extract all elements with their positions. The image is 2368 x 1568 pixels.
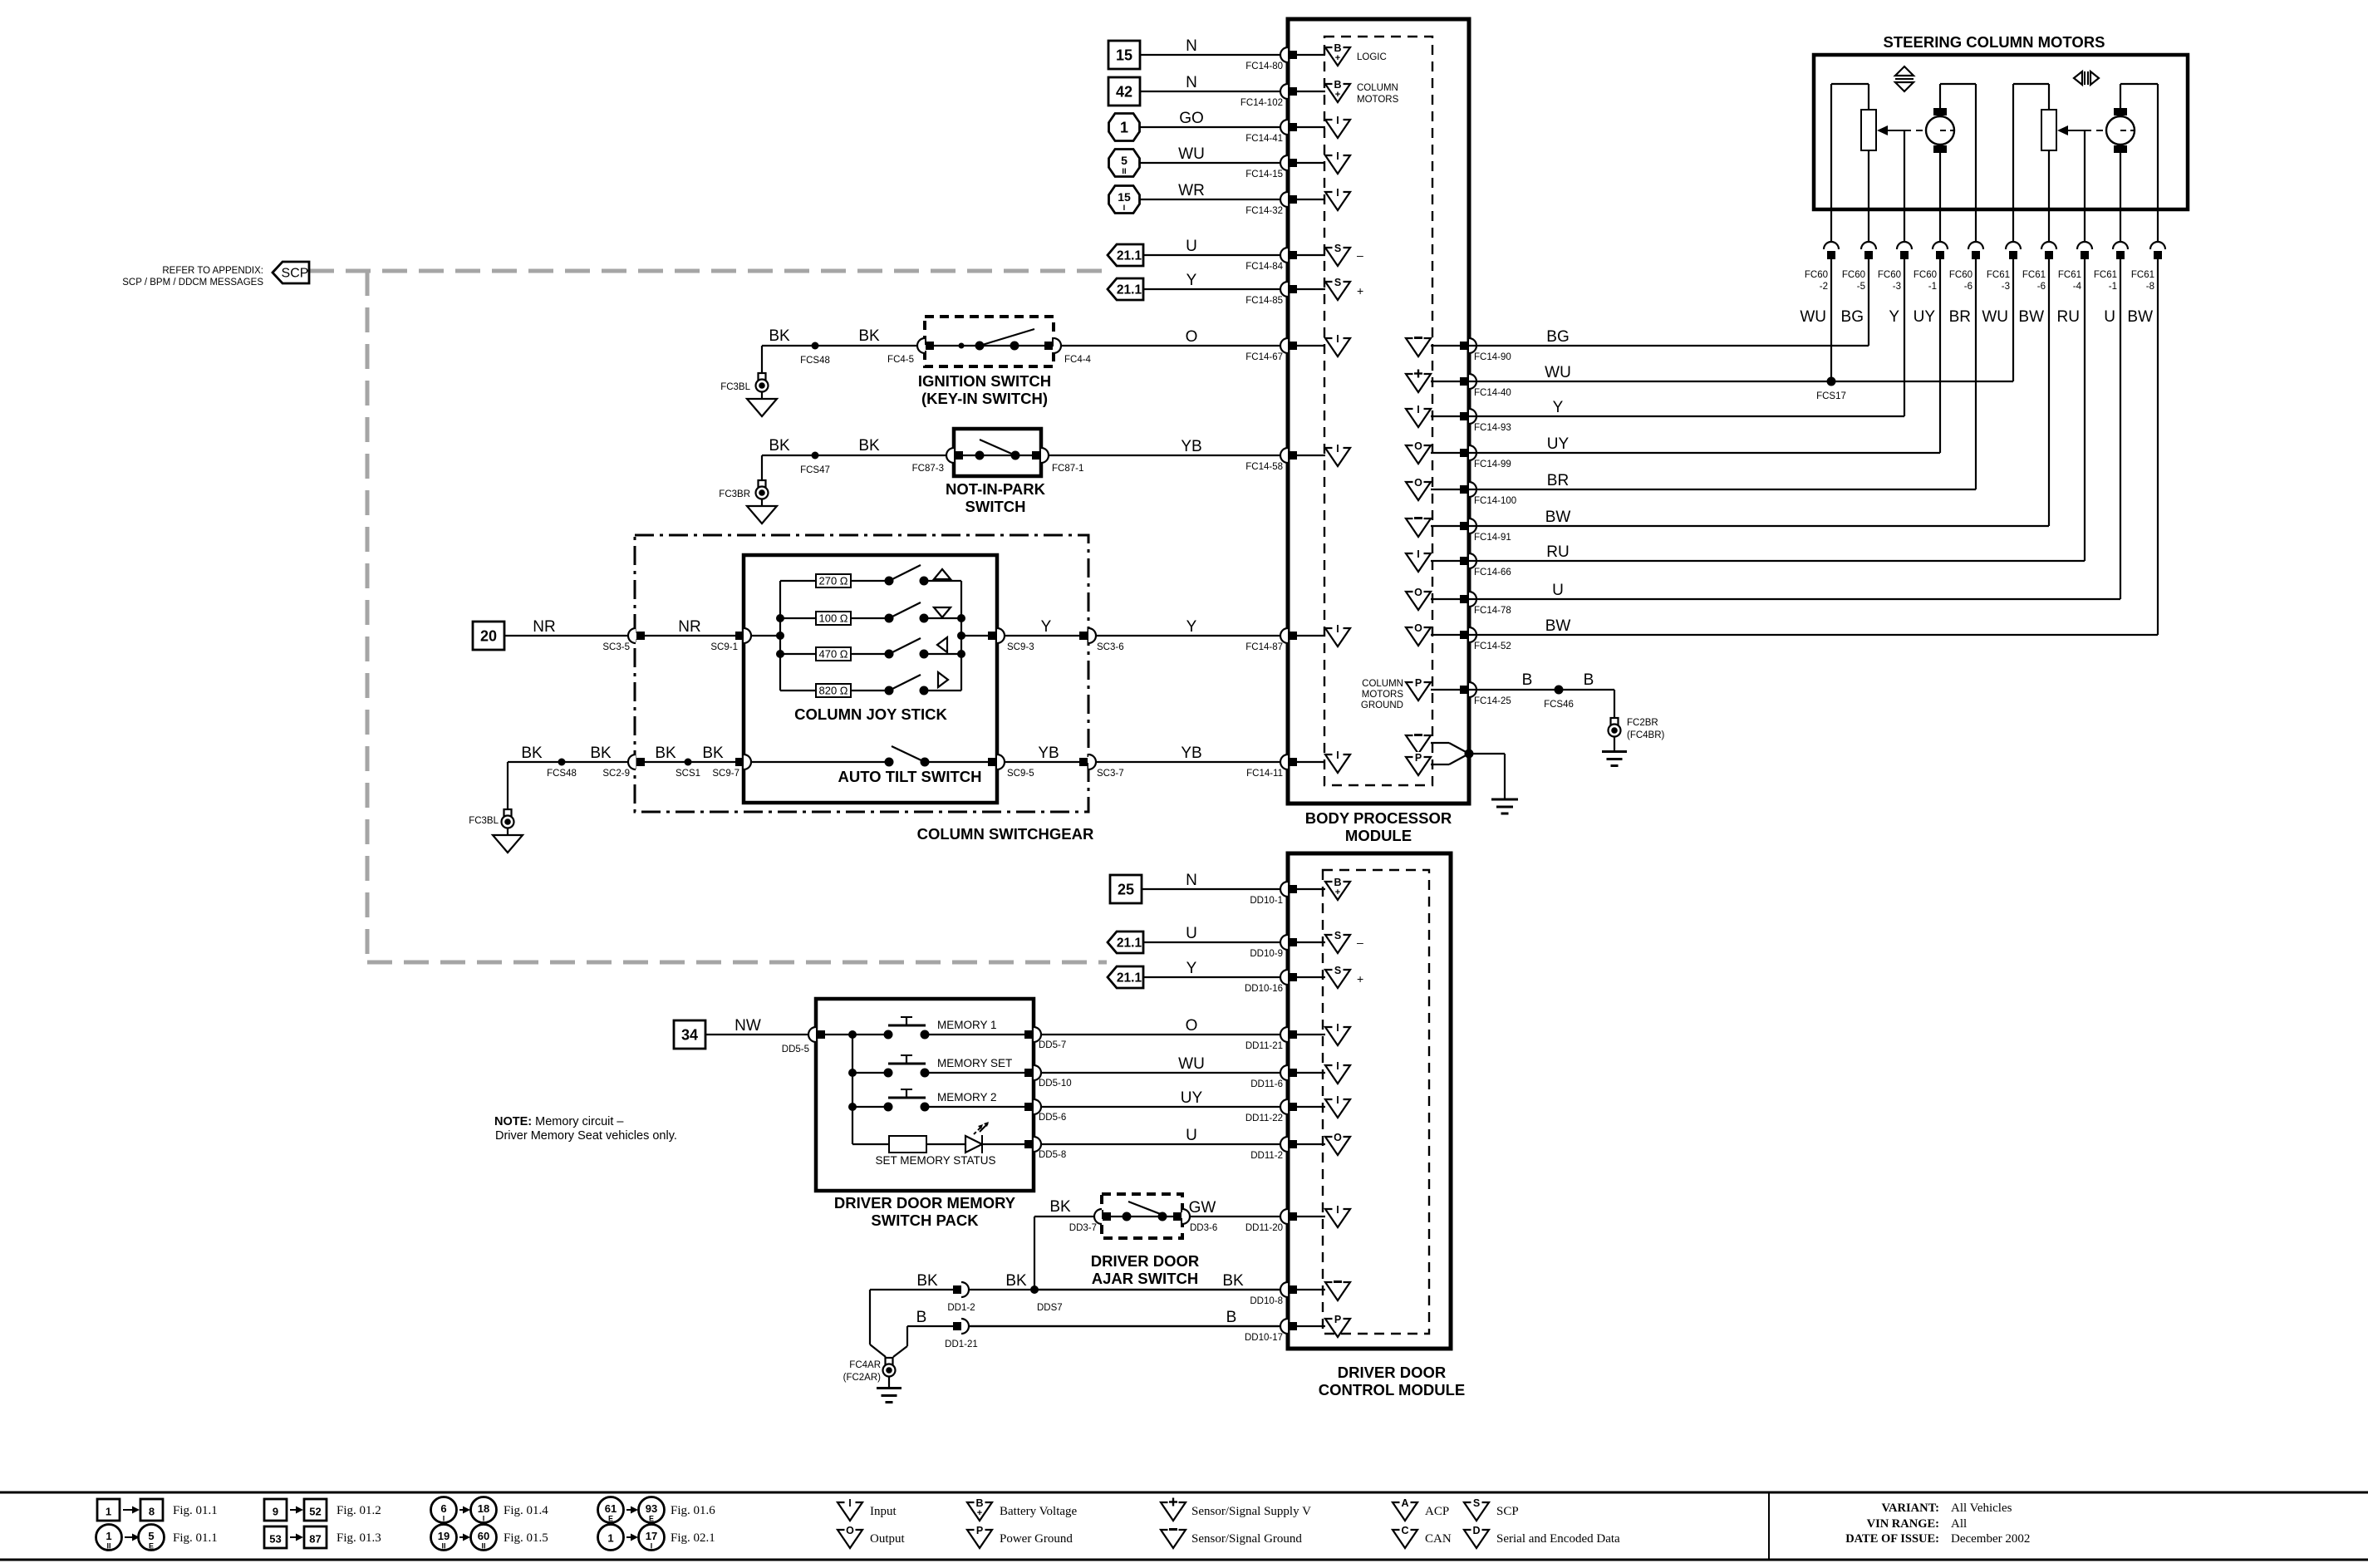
svg-text:COLUMN: COLUMN	[1362, 679, 1403, 689]
svg-text:93: 93	[646, 1502, 657, 1515]
svg-text:O: O	[1334, 1132, 1342, 1143]
svg-text:FC4-4: FC4-4	[1064, 355, 1092, 365]
svg-text:U: U	[2104, 308, 2115, 326]
svg-text:BG: BG	[1841, 308, 1864, 326]
svg-text:S: S	[1334, 965, 1341, 976]
svg-text:MODULE: MODULE	[1345, 827, 1412, 844]
svg-text:Serial and Encoded Data: Serial and Encoded Data	[1496, 1532, 1620, 1546]
svg-text:DD11-6: DD11-6	[1250, 1079, 1283, 1089]
svg-text:BK: BK	[769, 327, 790, 345]
svg-text:I: I	[483, 1515, 485, 1523]
svg-text:BW: BW	[2018, 308, 2044, 326]
svg-text:-3: -3	[2002, 282, 2010, 292]
svg-text:O: O	[1186, 328, 1198, 346]
svg-text:FC14-11: FC14-11	[1246, 769, 1283, 779]
svg-text:DRIVER DOOR: DRIVER DOOR	[1091, 1252, 1200, 1270]
svg-text:87: 87	[309, 1533, 321, 1546]
svg-text:FC14-99: FC14-99	[1474, 460, 1511, 469]
svg-text:I: I	[848, 1497, 851, 1509]
svg-text:-3: -3	[1893, 282, 1901, 292]
svg-text:MEMORY SET: MEMORY SET	[937, 1057, 1012, 1069]
svg-text:YB: YB	[1181, 745, 1201, 762]
svg-text:SCP: SCP	[1496, 1505, 1519, 1518]
svg-text:DD1-21: DD1-21	[945, 1339, 978, 1349]
svg-text:BW: BW	[2127, 308, 2153, 326]
svg-text:Sensor/Signal Ground: Sensor/Signal Ground	[1191, 1532, 1302, 1546]
svg-text:+: +	[1335, 53, 1340, 63]
svg-text:RU: RU	[1546, 543, 1569, 561]
svg-text:I: I	[1336, 750, 1339, 761]
svg-text:820 Ω: 820 Ω	[818, 685, 847, 697]
svg-text:FC60: FC60	[1949, 270, 1973, 280]
svg-text:270 Ω: 270 Ω	[818, 575, 847, 587]
svg-text:MEMORY 1: MEMORY 1	[937, 1019, 997, 1031]
svg-text:Fig. 01.5: Fig. 01.5	[504, 1531, 548, 1545]
svg-text:S: S	[1334, 277, 1341, 288]
svg-text:II: II	[481, 1542, 485, 1551]
svg-text:FCS17: FCS17	[1816, 391, 1846, 401]
svg-text:6: 6	[440, 1502, 446, 1515]
svg-text:-6: -6	[1964, 282, 1973, 292]
svg-text:BK: BK	[1222, 1272, 1244, 1290]
svg-text:+: +	[977, 1508, 982, 1518]
svg-text:FC14-85: FC14-85	[1245, 296, 1283, 306]
svg-text:P: P	[1415, 677, 1422, 689]
svg-text:O: O	[1414, 440, 1422, 452]
svg-text:WU: WU	[1178, 145, 1205, 163]
svg-text:B: B	[1334, 877, 1341, 888]
svg-text:52: 52	[309, 1506, 321, 1518]
svg-text:17: 17	[646, 1530, 657, 1542]
svg-text:GO: GO	[1179, 110, 1204, 127]
svg-text:25: 25	[1118, 882, 1134, 898]
svg-text:DD5-6: DD5-6	[1039, 1113, 1066, 1123]
svg-text:O: O	[1414, 477, 1422, 489]
svg-text:BW: BW	[1545, 509, 1571, 526]
svg-text:100 Ω: 100 Ω	[818, 612, 847, 625]
svg-text:B: B	[916, 1309, 927, 1326]
svg-text:SWITCH PACK: SWITCH PACK	[871, 1212, 979, 1229]
svg-text:1: 1	[106, 1506, 111, 1518]
svg-text:P: P	[1334, 1314, 1341, 1325]
svg-text:(KEY-IN SWITCH): (KEY-IN SWITCH)	[921, 390, 1048, 407]
svg-text:STEERING COLUMN MOTORS: STEERING COLUMN MOTORS	[1884, 33, 2105, 51]
svg-text:WU: WU	[1982, 308, 2008, 326]
svg-text:FC61: FC61	[2022, 270, 2046, 280]
svg-text:D: D	[1472, 1525, 1480, 1536]
svg-text:SWITCH: SWITCH	[965, 498, 1026, 515]
svg-text:DD5-7: DD5-7	[1039, 1040, 1066, 1050]
svg-text:FC14-41: FC14-41	[1245, 134, 1283, 144]
svg-text:U: U	[1552, 582, 1564, 599]
svg-text:FC60: FC60	[1842, 270, 1865, 280]
svg-text:VARIANT:: VARIANT:	[1881, 1502, 1939, 1515]
svg-text:I: I	[651, 1542, 653, 1551]
svg-text:COLUMN JOY STICK: COLUMN JOY STICK	[794, 705, 947, 723]
svg-text:S: S	[1334, 243, 1341, 254]
svg-text:BR: BR	[1547, 472, 1569, 489]
svg-text:-8: -8	[2146, 282, 2154, 292]
svg-text:SCP: SCP	[282, 267, 309, 281]
svg-text:BK: BK	[590, 745, 612, 762]
svg-text:470 Ω: 470 Ω	[818, 648, 847, 661]
svg-text:Sensor/Signal Supply V: Sensor/Signal Supply V	[1191, 1505, 1311, 1518]
svg-text:S: S	[1334, 930, 1341, 941]
svg-text:–: –	[1357, 936, 1363, 949]
svg-text:DDS7: DDS7	[1037, 1303, 1063, 1313]
svg-text:GROUND: GROUND	[1361, 700, 1403, 710]
svg-text:A: A	[1401, 1497, 1408, 1509]
svg-text:O: O	[846, 1525, 854, 1536]
svg-text:5: 5	[148, 1530, 154, 1542]
svg-text:I: I	[1336, 187, 1339, 199]
svg-text:FC14-78: FC14-78	[1474, 606, 1511, 616]
svg-text:FC61: FC61	[1987, 270, 2010, 280]
svg-text:I: I	[1336, 623, 1339, 635]
svg-text:YB: YB	[1038, 745, 1059, 762]
svg-text:I: I	[1417, 548, 1419, 560]
svg-text:Fig. 02.1: Fig. 02.1	[671, 1531, 715, 1545]
svg-text:Driver Memory Seat vehicles on: Driver Memory Seat vehicles only.	[495, 1129, 677, 1143]
svg-text:I: I	[1123, 204, 1126, 213]
svg-text:N: N	[1186, 872, 1197, 889]
svg-text:WR: WR	[1178, 182, 1205, 199]
svg-text:U: U	[1186, 1127, 1197, 1144]
svg-text:19: 19	[438, 1530, 450, 1542]
svg-text:+: +	[1357, 284, 1363, 297]
svg-text:FC14-84: FC14-84	[1245, 262, 1283, 272]
svg-text:NW: NW	[734, 1017, 761, 1035]
svg-text:P: P	[976, 1525, 983, 1536]
svg-text:I: I	[1417, 404, 1419, 415]
svg-text:-1: -1	[1928, 282, 1937, 292]
svg-text:–: –	[1357, 248, 1363, 262]
svg-text:FC14-67: FC14-67	[1245, 352, 1283, 362]
svg-text:18: 18	[478, 1502, 489, 1515]
svg-text:SC3-7: SC3-7	[1097, 769, 1124, 779]
svg-text:BK: BK	[916, 1272, 938, 1290]
svg-text:Battery Voltage: Battery Voltage	[1000, 1505, 1078, 1518]
svg-text:Fig. 01.2: Fig. 01.2	[337, 1504, 381, 1517]
svg-text:All Vehicles: All Vehicles	[1951, 1502, 2012, 1515]
svg-text:Fig. 01.3: Fig. 01.3	[337, 1531, 381, 1545]
svg-text:CAN: CAN	[1425, 1532, 1452, 1546]
svg-text:B: B	[1522, 671, 1533, 689]
svg-text:-5: -5	[1857, 282, 1865, 292]
svg-text:I: I	[1336, 1060, 1339, 1072]
svg-text:E: E	[608, 1515, 613, 1523]
svg-text:N: N	[1186, 74, 1197, 91]
svg-text:FC14-100: FC14-100	[1474, 496, 1516, 506]
svg-text:B: B	[1334, 79, 1341, 91]
svg-text:SC2-9: SC2-9	[602, 769, 630, 779]
svg-text:Fig. 01.1: Fig. 01.1	[173, 1504, 218, 1517]
svg-text:I: I	[1336, 1022, 1339, 1034]
svg-text:DD11-20: DD11-20	[1245, 1223, 1283, 1233]
svg-text:DD10-16: DD10-16	[1245, 984, 1283, 994]
svg-text:15: 15	[1116, 47, 1132, 64]
svg-text:+: +	[1335, 90, 1340, 100]
svg-text:U: U	[1186, 925, 1197, 942]
svg-text:21.1: 21.1	[1117, 249, 1142, 263]
svg-text:BK: BK	[858, 437, 880, 455]
svg-text:AUTO TILT SWITCH: AUTO TILT SWITCH	[838, 768, 982, 785]
svg-text:I: I	[1336, 150, 1339, 162]
svg-text:-4: -4	[2073, 282, 2082, 292]
svg-text:Fig. 01.1: Fig. 01.1	[173, 1531, 218, 1545]
svg-text:FC14-25: FC14-25	[1474, 696, 1511, 706]
svg-text:FC14-91: FC14-91	[1474, 533, 1511, 543]
svg-text:FC14-58: FC14-58	[1245, 462, 1283, 472]
svg-text:ACP: ACP	[1425, 1505, 1449, 1518]
svg-text:WU: WU	[1545, 364, 1571, 381]
svg-text:B: B	[1584, 671, 1594, 689]
svg-text:FC3BR: FC3BR	[719, 489, 750, 499]
svg-text:9: 9	[273, 1506, 278, 1518]
svg-text:DD11-22: DD11-22	[1245, 1113, 1283, 1123]
svg-text:MOTORS: MOTORS	[1357, 95, 1399, 105]
svg-text:I: I	[1336, 1204, 1339, 1216]
svg-text:SCS1: SCS1	[676, 769, 700, 779]
svg-text:FC3BL: FC3BL	[720, 382, 750, 392]
svg-text:42: 42	[1116, 84, 1132, 101]
svg-text:Power Ground: Power Ground	[1000, 1532, 1073, 1546]
svg-text:SC9-1: SC9-1	[710, 642, 738, 652]
svg-text:WU: WU	[1800, 308, 1826, 326]
svg-text:DD10-9: DD10-9	[1250, 949, 1283, 959]
svg-text:FC3BL: FC3BL	[469, 816, 499, 826]
svg-text:BR: BR	[1949, 308, 1971, 326]
svg-text:Output: Output	[870, 1532, 906, 1546]
svg-text:34: 34	[681, 1027, 698, 1044]
svg-text:All: All	[1951, 1517, 1967, 1531]
svg-text:DD5-8: DD5-8	[1039, 1150, 1066, 1160]
svg-text:B: B	[1334, 42, 1341, 54]
svg-text:Y: Y	[1041, 618, 1052, 636]
svg-text:YB: YB	[1181, 438, 1201, 455]
svg-text:FC14-102: FC14-102	[1240, 98, 1283, 108]
svg-text:FC61: FC61	[2094, 270, 2117, 280]
svg-text:U: U	[1186, 238, 1197, 255]
svg-text:MEMORY 2: MEMORY 2	[937, 1091, 997, 1103]
svg-text:Fig. 01.6: Fig. 01.6	[671, 1504, 715, 1517]
svg-text:(FC4BR): (FC4BR)	[1627, 730, 1665, 740]
svg-text:FC60: FC60	[1805, 270, 1828, 280]
svg-text:I: I	[443, 1515, 445, 1523]
svg-text:O: O	[1414, 622, 1422, 634]
svg-text:1: 1	[607, 1532, 613, 1545]
svg-text:BK: BK	[521, 745, 543, 762]
svg-text:Y: Y	[1186, 618, 1197, 636]
svg-text:DRIVER DOOR: DRIVER DOOR	[1338, 1364, 1447, 1381]
svg-text:Y: Y	[1889, 308, 1899, 326]
svg-text:AJAR SWITCH: AJAR SWITCH	[1092, 1270, 1198, 1287]
svg-text:COLUMN: COLUMN	[1357, 83, 1398, 93]
svg-text:COLUMN SWITCHGEAR: COLUMN SWITCHGEAR	[917, 825, 1094, 843]
svg-text:60: 60	[478, 1530, 489, 1542]
svg-text:FC14-90: FC14-90	[1474, 352, 1511, 362]
svg-text:SC9-3: SC9-3	[1007, 642, 1034, 652]
svg-text:DD11-21: DD11-21	[1245, 1041, 1283, 1051]
svg-text:FC14-66: FC14-66	[1474, 568, 1511, 578]
svg-text:21.1: 21.1	[1117, 971, 1142, 986]
svg-text:+: +	[1335, 887, 1340, 897]
svg-text:FC87-3: FC87-3	[912, 464, 944, 474]
svg-text:SC9-5: SC9-5	[1007, 769, 1034, 779]
svg-text:IGNITION SWITCH: IGNITION SWITCH	[918, 372, 1051, 390]
svg-text:21.1: 21.1	[1117, 283, 1142, 297]
svg-text:SC3-6: SC3-6	[1097, 642, 1124, 652]
svg-text:FC60: FC60	[1878, 270, 1901, 280]
svg-text:FC14-40: FC14-40	[1474, 388, 1511, 398]
svg-text:B: B	[1226, 1309, 1237, 1326]
svg-text:FC14-32: FC14-32	[1245, 206, 1283, 216]
svg-text:SCP / BPM / DDCM MESSAGES: SCP / BPM / DDCM MESSAGES	[122, 278, 263, 288]
svg-text:BK: BK	[769, 437, 790, 455]
svg-text:FCS48: FCS48	[547, 769, 577, 779]
svg-text:+: +	[1357, 972, 1363, 986]
svg-text:DD1-2: DD1-2	[947, 1303, 975, 1313]
svg-text:Y: Y	[1186, 960, 1197, 977]
svg-text:20: 20	[480, 628, 497, 645]
svg-text:DD10-17: DD10-17	[1245, 1333, 1283, 1343]
svg-text:FC4-5: FC4-5	[887, 355, 914, 365]
svg-text:FC14-93: FC14-93	[1474, 423, 1511, 433]
svg-text:FC87-1: FC87-1	[1052, 464, 1083, 474]
svg-text:21.1: 21.1	[1117, 936, 1142, 951]
svg-text:Input: Input	[870, 1505, 897, 1518]
svg-text:BK: BK	[1049, 1198, 1071, 1216]
svg-text:BK: BK	[858, 327, 880, 345]
svg-text:E: E	[649, 1515, 654, 1523]
svg-text:DD3-7: DD3-7	[1069, 1223, 1097, 1233]
svg-text:-6: -6	[2037, 282, 2046, 292]
svg-text:NOTE: Memory circuit –: NOTE: Memory circuit –	[494, 1115, 624, 1128]
svg-text:5: 5	[1121, 154, 1128, 167]
svg-text:FC60: FC60	[1914, 270, 1937, 280]
svg-text:O: O	[1186, 1017, 1198, 1035]
svg-text:N: N	[1186, 37, 1197, 55]
svg-text:DATE OF ISSUE:: DATE OF ISSUE:	[1845, 1532, 1939, 1546]
svg-text:BW: BW	[1545, 617, 1571, 635]
svg-text:REFER TO APPENDIX:: REFER TO APPENDIX:	[162, 266, 263, 276]
svg-text:Y: Y	[1186, 272, 1197, 289]
svg-text:B: B	[975, 1497, 983, 1509]
svg-text:BK: BK	[702, 745, 724, 762]
svg-text:DRIVER DOOR MEMORY: DRIVER DOOR MEMORY	[834, 1194, 1016, 1212]
svg-text:FC61: FC61	[2131, 270, 2154, 280]
svg-text:DD10-1: DD10-1	[1250, 896, 1283, 906]
svg-text:BK: BK	[655, 745, 676, 762]
svg-text:FCS48: FCS48	[800, 356, 830, 366]
svg-text:FC14-80: FC14-80	[1245, 61, 1283, 71]
svg-text:I: I	[1336, 443, 1339, 455]
svg-text:WU: WU	[1178, 1055, 1205, 1073]
svg-text:BODY PROCESSOR: BODY PROCESSOR	[1305, 809, 1452, 827]
svg-text:DD10-8: DD10-8	[1250, 1296, 1283, 1306]
svg-text:UY: UY	[1181, 1089, 1203, 1107]
svg-text:-1: -1	[2109, 282, 2117, 292]
svg-text:C: C	[1401, 1525, 1408, 1536]
svg-text:FCS46: FCS46	[1544, 700, 1574, 710]
svg-text:FC14-87: FC14-87	[1245, 642, 1283, 652]
svg-text:GW: GW	[1189, 1199, 1216, 1217]
svg-text:BK: BK	[1005, 1272, 1027, 1290]
svg-text:-2: -2	[1820, 282, 1828, 292]
svg-text:UY: UY	[1914, 308, 1936, 326]
svg-text:II: II	[1122, 167, 1126, 176]
svg-text:II: II	[106, 1542, 111, 1551]
svg-text:LOGIC: LOGIC	[1357, 52, 1387, 62]
svg-text:SC9-7: SC9-7	[712, 769, 739, 779]
svg-text:S: S	[1473, 1497, 1480, 1509]
svg-text:MOTORS: MOTORS	[1362, 690, 1404, 700]
svg-text:NR: NR	[533, 618, 555, 636]
svg-text:DD5-10: DD5-10	[1039, 1079, 1072, 1089]
svg-text:(FC2AR): (FC2AR)	[843, 1373, 882, 1383]
svg-text:DD11-2: DD11-2	[1250, 1151, 1283, 1161]
svg-text:15: 15	[1118, 190, 1131, 204]
svg-text:1: 1	[1120, 120, 1128, 136]
svg-text:Y: Y	[1553, 399, 1564, 416]
svg-text:O: O	[1414, 587, 1422, 598]
svg-text:SET MEMORY STATUS: SET MEMORY STATUS	[875, 1154, 995, 1167]
svg-text:FC2BR: FC2BR	[1627, 718, 1658, 728]
svg-text:FC61: FC61	[2058, 270, 2081, 280]
svg-text:8: 8	[149, 1506, 155, 1518]
svg-text:61: 61	[605, 1502, 617, 1515]
svg-text:P: P	[1415, 752, 1422, 764]
svg-text:UY: UY	[1547, 435, 1570, 453]
svg-text:DD3-6: DD3-6	[1190, 1223, 1217, 1233]
svg-text:1: 1	[106, 1530, 111, 1542]
svg-text:I: I	[1336, 333, 1339, 345]
svg-text:E: E	[149, 1542, 154, 1551]
svg-text:FCS47: FCS47	[800, 465, 830, 475]
svg-text:BG: BG	[1546, 328, 1569, 346]
svg-text:SC3-5: SC3-5	[602, 642, 630, 652]
svg-text:FC14-15: FC14-15	[1245, 170, 1283, 179]
svg-text:Fig. 01.4: Fig. 01.4	[504, 1504, 548, 1517]
svg-text:VIN RANGE:: VIN RANGE:	[1867, 1517, 1939, 1531]
svg-text:53: 53	[269, 1533, 281, 1546]
svg-text:December 2002: December 2002	[1951, 1532, 2030, 1546]
svg-text:NR: NR	[678, 618, 700, 636]
svg-text:CONTROL MODULE: CONTROL MODULE	[1319, 1381, 1465, 1398]
svg-text:RU: RU	[2057, 308, 2080, 326]
svg-text:FC4AR: FC4AR	[849, 1360, 881, 1370]
svg-text:I: I	[1336, 1094, 1339, 1106]
svg-text:NOT-IN-PARK: NOT-IN-PARK	[946, 480, 1046, 498]
svg-text:FC14-52: FC14-52	[1474, 641, 1511, 651]
svg-text:I: I	[1336, 115, 1339, 126]
svg-text:II: II	[441, 1542, 445, 1551]
svg-text:DD5-5: DD5-5	[782, 1045, 809, 1054]
